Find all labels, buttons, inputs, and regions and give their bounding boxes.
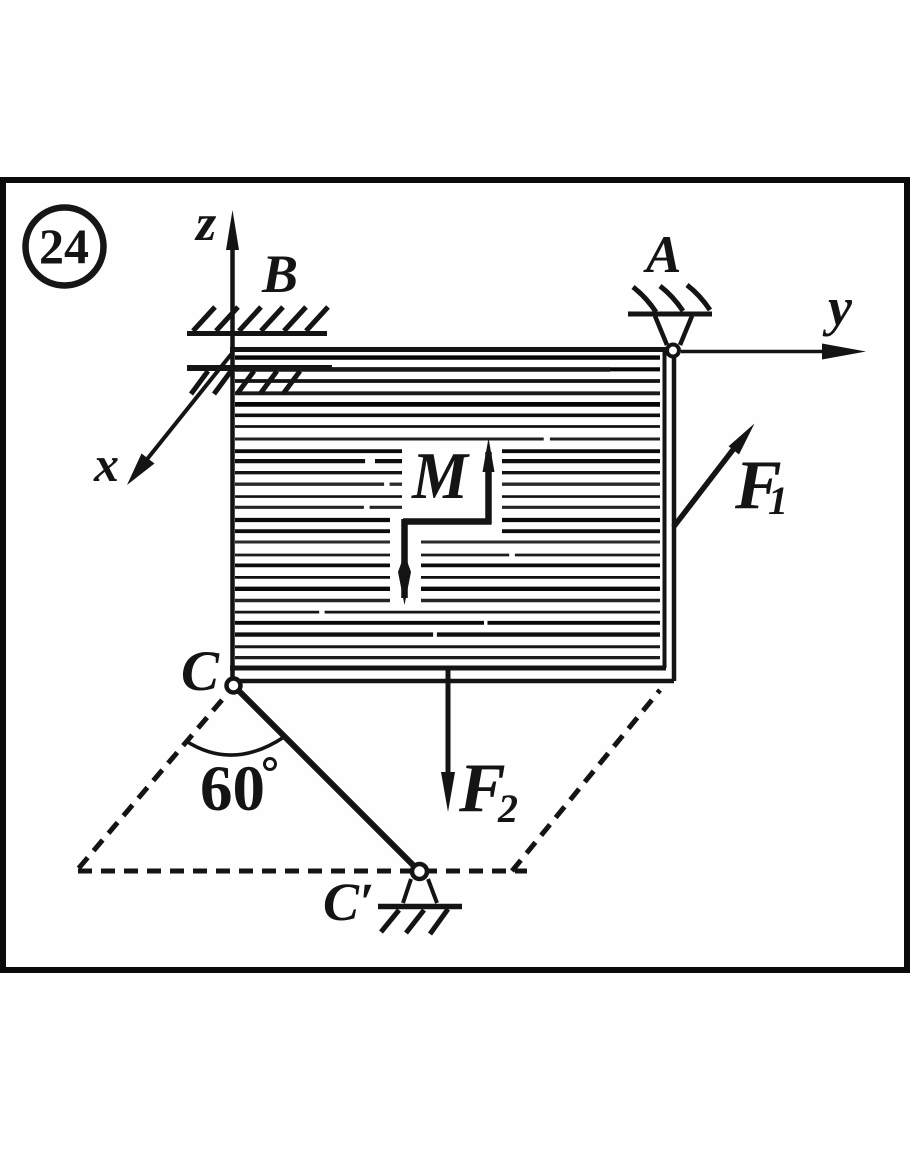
svg-text:M: M <box>411 439 470 513</box>
svg-text:24: 24 <box>39 218 89 274</box>
svg-text:60: 60 <box>200 753 265 825</box>
svg-text:B: B <box>261 244 298 304</box>
svg-text:x: x <box>93 436 119 492</box>
svg-text:C′: C′ <box>323 872 374 932</box>
svg-text:1: 1 <box>768 478 788 523</box>
svg-text:C: C <box>181 640 220 703</box>
svg-text:z: z <box>194 195 217 252</box>
svg-text:A: A <box>643 226 681 284</box>
svg-text:2: 2 <box>497 786 518 831</box>
